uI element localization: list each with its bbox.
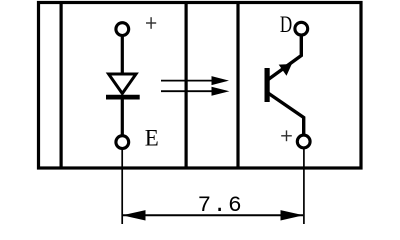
light emission arrow 1 <box>161 76 229 85</box>
terminal circle E (LED cathode) <box>116 136 129 149</box>
terminal circle + (output) <box>297 135 310 148</box>
wire transistor to output terminal <box>268 93 304 136</box>
svg-text:E: E <box>145 126 159 151</box>
wire anode to LED <box>121 37 124 74</box>
light emission arrow 2 <box>161 87 229 96</box>
phototransistor Q1 <box>265 64 292 102</box>
internal divider wall 2 <box>185 1 188 168</box>
wire D terminal to transistor <box>268 36 302 80</box>
extension line right <box>303 149 305 225</box>
terminal circle D <box>295 22 308 35</box>
internal divider wall 3 <box>236 1 239 168</box>
internal divider wall 1 <box>59 1 62 168</box>
LED diode D1 <box>106 74 140 97</box>
package outline box <box>39 3 362 169</box>
terminal circle: LED anode <box>116 23 129 36</box>
svg-text:D: D <box>280 12 292 37</box>
extension line left <box>121 149 123 224</box>
dimension arrowhead right <box>281 210 304 220</box>
label + (anode polarity) <box>146 17 156 29</box>
svg-text:7.6: 7.6 <box>198 192 242 218</box>
dimension arrowhead left <box>123 210 146 220</box>
wire LED cathode to E terminal <box>121 97 124 136</box>
dimension line <box>123 214 303 216</box>
label + (output polarity) <box>281 130 292 141</box>
